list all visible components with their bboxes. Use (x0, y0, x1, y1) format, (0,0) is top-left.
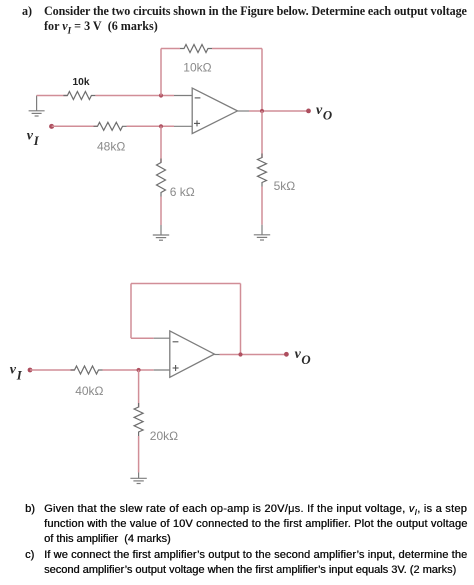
svg-text:40kΩ: 40kΩ (75, 384, 103, 398)
wire feedback top right segment (212, 48, 262, 50)
wire stub to op-amp minus input (154, 337, 170, 339)
wire plus node down to R20k (138, 370, 140, 408)
wire output to vO (249, 110, 309, 112)
resistor R 20kOhm (vertical) (134, 403, 143, 436)
U1 non-inverting input marker (+) (194, 120, 200, 126)
wire R10k to inverting node (95, 95, 174, 97)
resistor R 10k (input, horizontal) (63, 92, 95, 100)
wire feedback top (131, 283, 241, 285)
wire feedback vertical right (240, 284, 242, 355)
wire vI to R40k (30, 369, 75, 371)
ground (circuit 2) (130, 472, 146, 483)
question b) text (25, 503, 35, 515)
U1 inverting input marker (-) (195, 97, 201, 99)
svg-text:5kΩ: 5kΩ (274, 179, 296, 193)
wire R6k to ground (160, 197, 162, 226)
wire feedback vertical left (160, 49, 162, 96)
node vO terminal (306, 109, 311, 114)
node vI terminal (circuit 2) (28, 368, 33, 373)
node: non-inverting junction (159, 124, 163, 128)
wire feedback to minus input (131, 337, 154, 339)
wire R40k to plus node (103, 369, 154, 371)
node: output junction (circuit 2) (238, 352, 242, 356)
wire feedback vertical right (to output) (261, 49, 263, 112)
svg-text:48kΩ: 48kΩ (97, 139, 125, 153)
svg-text:vI: vI (27, 128, 40, 148)
wire output to vO (circuit 2) (220, 354, 287, 356)
node vO terminal (circuit 2) (284, 352, 289, 357)
resistor R 10kOhm (feedback, horizontal) (180, 45, 212, 53)
wire vI to R48k (52, 125, 98, 127)
ground (below 5k) (254, 225, 270, 240)
op-amp U2 body (170, 331, 215, 377)
svg-text:10kΩ: 10kΩ (183, 61, 211, 75)
wire R20k to ground (138, 436, 140, 472)
resistor R 6kOhm (vertical) (157, 159, 166, 197)
node: output junction (260, 109, 264, 113)
svg-text:10k: 10k (73, 77, 90, 88)
wire stub to op-amp minus input (174, 95, 192, 97)
svg-text:vO: vO (316, 103, 332, 123)
wire stub to op-amp plus input (174, 125, 192, 127)
wire plus node down to R6k (160, 126, 162, 162)
svg-text:vO: vO (295, 347, 311, 367)
wire R48k to plus node (127, 125, 175, 127)
wire stub to op-amp plus input (154, 369, 170, 371)
ground (left input) (29, 96, 45, 117)
wire output down to R5k (261, 111, 263, 158)
resistor R 40kOhm (horizontal) (71, 366, 103, 374)
svg-text:vI: vI (10, 363, 23, 383)
svg-text:6 kΩ: 6 kΩ (170, 185, 195, 199)
node: inverting input junction (159, 93, 163, 97)
U2 inverting input marker (-) (173, 341, 179, 343)
wire ground to R 10k (37, 95, 68, 97)
op-amp U1 body (192, 88, 237, 134)
wire R5k to ground (261, 187, 263, 225)
ground (below 6k) (153, 225, 169, 240)
svg-text:20kΩ: 20kΩ (150, 429, 178, 443)
resistor R 48kOhm (horizontal) (94, 122, 127, 130)
wire op-amp 2 output stub (214, 354, 219, 356)
node vI terminal (49, 124, 54, 129)
wire op-amp output stub (238, 110, 250, 112)
wire feedback top left segment (161, 48, 180, 50)
node: non-inverting junction (circuit 2) (137, 368, 141, 372)
wire feedback vertical left (130, 284, 132, 339)
question a) text (22, 4, 32, 19)
question c) text (25, 549, 34, 561)
U2 non-inverting input marker (+) (173, 365, 179, 371)
resistor R 5kOhm (vertical) (258, 154, 267, 187)
